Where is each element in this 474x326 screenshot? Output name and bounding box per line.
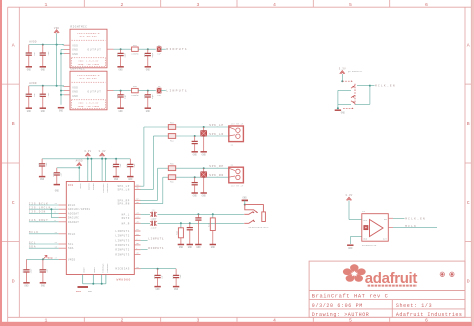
junction: [90, 158, 92, 160]
wire mic1 gnd pins: [61, 48, 64, 50]
op-amp codec IC3 WM8960 box: [66, 182, 134, 275]
ground: [173, 286, 179, 288]
svg-text:GND: GND: [146, 68, 151, 71]
svg-text:AGND: AGND: [76, 290, 82, 293]
junction: [203, 176, 205, 178]
svg-text:33pF: 33pF: [124, 52, 127, 58]
svg-text:6: 6: [425, 318, 428, 324]
ground: [145, 66, 151, 68]
wire 3.3V stem: [341, 74, 343, 81]
junction: [101, 283, 103, 285]
svg-text:Temp: -40 +100C: Temp: -40 +100C: [78, 105, 100, 108]
capacitor: [42, 259, 44, 269]
wire 3.3V rail above codec: [42, 158, 130, 160]
junction: [203, 167, 205, 169]
codec right pin stubs: [134, 185, 140, 187]
capacitor: [28, 45, 30, 53]
oscillator crystal square: [364, 226, 368, 230]
svg-text:AVDD: AVDD: [76, 160, 83, 163]
wire series cap to label: [161, 48, 166, 50]
wire SPK_RP riser: [157, 168, 159, 200]
svg-text:.1uF: .1uF: [60, 172, 63, 178]
svg-text:JST PH 2P: JST PH 2P: [231, 122, 244, 125]
svg-text:33pF: 33pF: [151, 52, 154, 58]
svg-text:RINPUT1: RINPUT1: [148, 247, 164, 250]
svg-text:RINPUT2: RINPUT2: [115, 249, 129, 252]
ferrite bead FB4: [153, 135, 168, 137]
adafruit logo flower: [342, 264, 367, 283]
svg-text:3.3V: 3.3V: [84, 150, 91, 153]
codec bottom pin stubs: [82, 275, 84, 284]
transistor Q3 body: [354, 84, 356, 105]
svg-text:9/3/20 6:06 PM: 9/3/20 6:06 PM: [312, 303, 363, 309]
svg-text:GND: GND: [72, 49, 78, 52]
capacitor: [175, 269, 177, 275]
svg-text:GND: GND: [119, 110, 124, 113]
svg-text:C: C: [467, 200, 470, 206]
junction: [189, 222, 191, 224]
svg-text:LINPUT1: LINPUT1: [166, 89, 188, 93]
svg-text:ADCDAT: ADCDAT: [68, 212, 79, 215]
resistor R35 series: [132, 88, 139, 92]
svg-text:SCL: SCL: [68, 243, 74, 246]
capacitor: [120, 91, 122, 95]
svg-text:DACDAT: DACDAT: [68, 221, 79, 224]
svg-text:VDD: VDD: [72, 44, 78, 47]
capacitor: [28, 86, 30, 94]
junction: [147, 90, 149, 92]
svg-text:GND: GND: [193, 195, 198, 198]
frame border lines: [7, 7, 9, 322]
junction: [203, 135, 205, 137]
wire bead1 to connector: [176, 167, 229, 169]
svg-text:VCC: VCC: [363, 219, 368, 222]
svg-text:220uF: 220uF: [150, 227, 157, 230]
svg-text:SPK_LP: SPK_LP: [209, 124, 224, 127]
junction: [197, 213, 199, 215]
wire AVDD vertical between mics: [56, 45, 58, 86]
svg-text:LINPUT3: LINPUT3: [115, 239, 129, 242]
wire DBVDD stub up: [90, 159, 92, 182]
junction: [42, 258, 44, 260]
svg-text:SPK_RP: SPK_RP: [209, 165, 224, 168]
svg-text:10uF: 10uF: [29, 268, 32, 274]
svg-text:ADCLRC/GPIO1: ADCLRC/GPIO1: [68, 207, 90, 211]
svg-text:GND: GND: [193, 153, 198, 156]
svg-text:GND: GND: [27, 110, 32, 113]
ground: [192, 192, 198, 194]
junction: [120, 90, 122, 92]
svg-text:GND: GND: [41, 68, 46, 71]
svg-text:SPKVDD1: SPKVDD1: [102, 184, 105, 194]
svg-text:33pF: 33pF: [151, 93, 154, 99]
svg-text:1: 1: [45, 318, 48, 324]
svg-text:GND: GND: [72, 91, 78, 94]
power symbol VDD: [54, 30, 59, 33]
svg-text:SPK_RN: SPK_RN: [117, 203, 129, 206]
svg-text:Adafruit Industries: Adafruit Industries: [396, 312, 463, 318]
capacitor: [42, 45, 44, 53]
wire SPK_LN riser: [152, 136, 154, 189]
svg-text:C: C: [12, 200, 15, 206]
wire mic gnd vertical: [60, 54, 62, 105]
svg-text:GND: GND: [24, 284, 29, 287]
power symbol 3.3V: [346, 197, 351, 200]
svg-text:SDA: SDA: [68, 247, 74, 250]
svg-text:LINPUT2: LINPUT2: [115, 235, 129, 238]
capacitor: [189, 223, 191, 227]
svg-text:WM8960: WM8960: [117, 278, 131, 281]
svg-text:HP_L: HP_L: [122, 213, 130, 216]
wire AVDD mic1: [29, 44, 64, 46]
connector X1 JST PH 2P: [229, 126, 244, 142]
svg-text:4: 4: [273, 318, 276, 324]
wire bottom arm: [343, 107, 353, 109]
svg-text:AVDD: AVDD: [29, 82, 37, 85]
headphone jack J1: [245, 205, 264, 212]
capacitor: [194, 177, 196, 182]
junction: [50, 208, 52, 210]
ferrite bead FB5: [158, 167, 169, 169]
capacitor: [129, 159, 131, 164]
wire codec ground bus: [83, 283, 106, 285]
wire: [29, 204, 59, 206]
junction: [56, 85, 58, 87]
svg-text:5V0: 5V0: [48, 257, 53, 260]
capacitor: [120, 49, 122, 53]
svg-text:1: 1: [45, 2, 48, 8]
capacitor C43 series headphone: [151, 221, 153, 226]
wire AVDD mic2: [29, 85, 64, 87]
wire HP_R to jack: [158, 222, 244, 224]
ground: [195, 244, 201, 246]
wire 5V0 to VMID pin: [27, 258, 59, 260]
mic2 pin stubs: [64, 85, 70, 87]
resistor R34 series: [132, 47, 139, 51]
wire bead1 to connector: [176, 126, 229, 128]
junction: [42, 44, 44, 46]
junction: [157, 268, 159, 270]
svg-text:3.3V: 3.3V: [339, 68, 346, 71]
svg-text:AVDD: AVDD: [29, 41, 37, 44]
wire AVDD horizontal: [57, 167, 79, 169]
svg-text:2: 2: [121, 318, 124, 324]
wire series cap to label: [161, 90, 166, 92]
svg-text:3.3V: 3.3V: [345, 194, 352, 197]
page edge bar right: [472, 0, 474, 326]
svg-text:GND: GND: [243, 196, 248, 199]
capacitor: [42, 86, 44, 94]
ground: [23, 282, 29, 284]
oscillator triangle symbol: [370, 220, 384, 237]
svg-text:SPKVDD2: SPKVDD2: [106, 184, 109, 194]
svg-text:LEFTMIC: LEFTMIC: [70, 68, 85, 71]
junction: [92, 283, 94, 285]
svg-text:GND: GND: [41, 284, 46, 287]
ground: [40, 282, 46, 284]
svg-text:MICBIAS: MICBIAS: [115, 268, 129, 271]
svg-text:MCLK: MCLK: [68, 233, 76, 236]
capacitor C4 series coupling: [157, 47, 161, 52]
wire MCLK_EN osc: [388, 217, 393, 219]
svg-text:B: B: [467, 121, 470, 127]
wire SPKVDD2 stub up: [105, 159, 107, 182]
ground codec AGND: [78, 286, 89, 288]
wire: [29, 212, 59, 214]
svg-text:Drawing: >AUTHOR: Drawing: >AUTHOR: [312, 312, 370, 318]
ground: [201, 192, 207, 194]
ground: [58, 107, 64, 109]
junction: [56, 44, 58, 46]
svg-text:SPK_LN: SPK_LN: [117, 188, 129, 191]
svg-text:IC3: IC3: [68, 184, 73, 187]
svg-text:5: 5: [349, 2, 352, 8]
svg-text:33pF: 33pF: [124, 93, 127, 99]
svg-text:MLE OR-38C: MLE OR-38C: [80, 77, 98, 80]
capacitor: [147, 91, 149, 95]
svg-text:GND: GND: [128, 178, 133, 181]
wire bead2 to connector: [176, 135, 229, 137]
svg-text:GND: GND: [59, 109, 64, 112]
svg-text:VMID: VMID: [68, 258, 76, 261]
svg-text:HP_R: HP_R: [122, 222, 130, 225]
wire HP_L to jack: [158, 213, 244, 215]
svg-text:5: 5: [349, 318, 352, 324]
wire AVDD arrow stem to pin: [78, 166, 80, 182]
svg-text:.1uF: .1uF: [45, 162, 48, 168]
ground: [117, 66, 123, 68]
wire I2S_LRCLK to DACLRC jog: [50, 209, 52, 217]
svg-text:MCLK: MCLK: [405, 225, 417, 228]
svg-text:SPKGND1: SPKGND1: [102, 264, 105, 274]
resistor R36 shunt: [180, 223, 182, 228]
capacitor: [115, 159, 117, 164]
junction: [369, 85, 371, 87]
svg-text:GND: GND: [146, 110, 151, 113]
svg-text:AGND: AGND: [83, 268, 86, 274]
svg-text:GND: GND: [72, 53, 78, 56]
wire: [29, 247, 59, 249]
wire MCLK out: [388, 227, 393, 229]
ground: [113, 176, 119, 178]
wire: [29, 221, 59, 223]
svg-text:GND: GND: [40, 178, 45, 181]
registered trademark symbols: [440, 272, 444, 276]
ground: [178, 244, 184, 246]
svg-text:D: D: [12, 278, 15, 284]
capacitor C5 series coupling: [157, 88, 161, 93]
svg-text:Q3 DMG1012T: Q3 DMG1012T: [348, 70, 363, 73]
svg-text:.1uF: .1uF: [47, 92, 50, 98]
svg-text:GND: GND: [55, 189, 60, 192]
junction: [87, 158, 89, 160]
junction: [203, 126, 205, 128]
capacitor across outputs: [203, 127, 205, 130]
svg-text:100ohm: 100ohm: [131, 94, 139, 97]
svg-text:GND: GND: [341, 112, 346, 115]
svg-text:3.3V: 3.3V: [98, 150, 105, 153]
svg-text:GND: GND: [348, 247, 353, 250]
svg-text:BCLK: BCLK: [68, 204, 76, 207]
resistor R37 shunt: [212, 214, 214, 218]
svg-text:GND: GND: [202, 195, 207, 198]
junction: [337, 107, 339, 109]
svg-text:GND: GND: [156, 288, 161, 291]
power symbol 3.3V: [100, 153, 105, 156]
wire cap to ground: [203, 177, 205, 193]
power symbol 3.3V: [85, 153, 90, 156]
adafruit logo subtext: [368, 285, 417, 287]
ferrite bead FB6: [163, 176, 169, 178]
page edge bar left: [0, 0, 2, 326]
ground: [210, 244, 216, 246]
svg-text:JST PH 2P: JST PH 2P: [231, 185, 244, 188]
svg-text:100ohm: 100ohm: [131, 53, 139, 56]
svg-text:RINPUT3: RINPUT3: [115, 253, 129, 256]
capacitor across outputs: [203, 168, 205, 171]
junction: [78, 167, 80, 169]
wire mic output to RINPUT1: [114, 48, 132, 50]
junction: [101, 158, 103, 160]
svg-text:GND: GND: [114, 178, 119, 181]
svg-text:.1uF: .1uF: [119, 163, 122, 169]
svg-text:Temp: -40 +100C: Temp: -40 +100C: [78, 63, 100, 66]
ground: [26, 66, 32, 68]
svg-text:GND: GND: [88, 290, 93, 293]
svg-text:VDD: VDD: [54, 27, 60, 30]
wire mic2 gnd pins: [61, 90, 64, 92]
wire VDD arrow to AVDD rail: [56, 33, 58, 44]
svg-text:OUT3: OUT3: [122, 217, 130, 220]
ground: [335, 109, 341, 111]
power symbol 3.3V: [340, 71, 345, 74]
svg-text:SPK_LN: SPK_LN: [209, 133, 224, 136]
wire MICBIAS: [141, 268, 177, 270]
junction: [194, 135, 196, 137]
wire drain loop right: [357, 85, 370, 87]
svg-text:.1uF: .1uF: [133, 163, 136, 169]
capacitor: [56, 168, 58, 173]
ground: [39, 176, 45, 178]
ground: [154, 286, 160, 288]
wire osc vcc: [348, 201, 350, 220]
svg-text:SPKGND2: SPKGND2: [106, 264, 109, 274]
svg-text:A: A: [467, 43, 470, 49]
junction: [147, 48, 149, 50]
junction: [194, 176, 196, 178]
svg-text:2: 2: [121, 2, 124, 8]
svg-text:DSC6001CI2A: DSC6001CI2A: [362, 244, 377, 247]
frame column ticks: [83, 0, 85, 7]
wire 3.3V arrow1 stem: [87, 156, 89, 181]
wire MCLK_EN out: [370, 85, 375, 87]
svg-text:MLE OR-38C: MLE OR-38C: [80, 35, 98, 38]
svg-text:GND: GND: [41, 110, 46, 113]
svg-text:AVDD: AVDD: [79, 184, 82, 190]
wire gate loop left: [338, 89, 351, 91]
svg-text:LINPUT1: LINPUT1: [148, 238, 164, 241]
wire cap to ground: [203, 136, 205, 152]
capacitor: [26, 259, 28, 269]
svg-text:4: 4: [273, 2, 276, 8]
ground: [127, 176, 133, 178]
svg-text:SPK_RN: SPK_RN: [209, 174, 224, 177]
svg-text:D: D: [467, 278, 470, 284]
svg-text:.1uF: .1uF: [46, 268, 49, 274]
svg-text:Sheet: 1/3: Sheet: 1/3: [396, 303, 432, 309]
svg-text:GND: GND: [174, 288, 179, 291]
ground: [347, 244, 353, 246]
svg-text:GND: GND: [179, 246, 184, 249]
ground: [192, 151, 198, 153]
junction: [105, 158, 107, 160]
ground: [54, 184, 60, 186]
ferrite bead FB3: [144, 126, 168, 128]
svg-text:DGND: DGND: [93, 268, 96, 274]
svg-text:6: 6: [425, 2, 428, 8]
ground: [40, 66, 46, 68]
svg-text:3: 3: [197, 318, 200, 324]
ground: [201, 151, 207, 153]
junction: [180, 222, 182, 224]
svg-text:DCVDD: DCVDD: [88, 184, 91, 191]
svg-text:GND: GND: [119, 68, 124, 71]
svg-text:GND: GND: [196, 246, 201, 249]
svg-text:GND: GND: [188, 246, 193, 249]
svg-text:HEADPHONEJACK: HEADPHONEJACK: [249, 226, 270, 229]
capacitor: [147, 49, 149, 53]
capacitor: [41, 159, 43, 164]
wire SPK_LP riser: [143, 127, 145, 186]
capacitor: [157, 269, 159, 275]
junction: [212, 213, 214, 215]
capacitor C42 series headphone: [151, 212, 153, 217]
svg-text:OUT: OUT: [383, 238, 388, 241]
svg-text:RINPUT1: RINPUT1: [115, 244, 129, 247]
junction: [120, 48, 122, 50]
power symbol 5V0 diagonal arrow: [43, 255, 47, 259]
svg-text:DBVDD: DBVDD: [92, 184, 95, 191]
wire bead2 to connector: [176, 176, 229, 178]
svg-text:.1uF: .1uF: [179, 274, 182, 280]
svg-text:RIGHTMIC: RIGHTMIC: [70, 26, 87, 29]
junction: [60, 53, 62, 55]
title block border: [309, 261, 465, 317]
connector X2 JST PH 2P: [229, 167, 244, 183]
junction: [115, 158, 117, 160]
ground: [187, 244, 193, 246]
ground: [117, 107, 123, 109]
svg-text:GND: GND: [363, 238, 368, 241]
wire: [29, 233, 59, 235]
wire SPK_RN riser: [162, 177, 164, 203]
wire HP_L: [141, 213, 151, 215]
mic1 pin stubs: [64, 44, 70, 46]
svg-text:3: 3: [197, 2, 200, 8]
ground: [40, 107, 46, 109]
svg-text:MCLK_EN: MCLK_EN: [405, 217, 426, 220]
junction: [60, 90, 62, 92]
svg-text:B: B: [12, 121, 15, 127]
wire: [29, 208, 59, 210]
frame row ticks: [2, 83, 19, 85]
svg-text:LINPUT1: LINPUT1: [115, 230, 129, 233]
wire resistor to series cap: [138, 90, 156, 92]
svg-text:A: A: [12, 43, 15, 49]
svg-text:MCLK_EN: MCLK_EN: [375, 85, 396, 88]
codec left pin stubs: [59, 204, 67, 206]
ground: [145, 107, 151, 109]
